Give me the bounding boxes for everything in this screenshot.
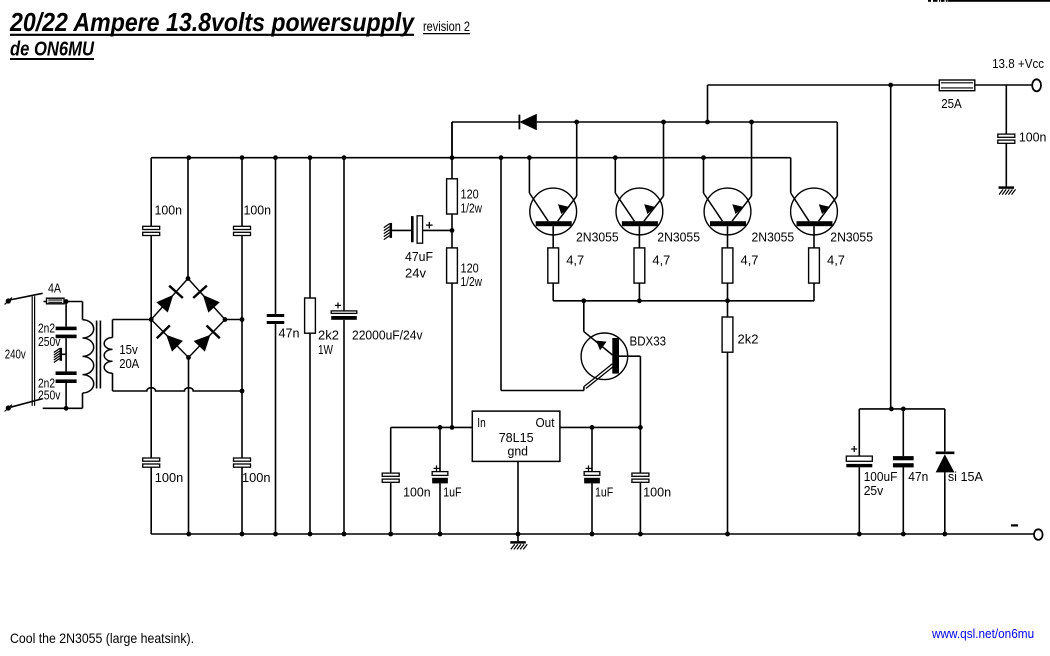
svg-text:2k2: 2k2	[318, 328, 339, 343]
svg-text:100n: 100n	[155, 202, 183, 217]
svg-text:Cool the 2N3055 (large heatsin: Cool the 2N3055 (large heatsink).	[10, 630, 194, 646]
svg-text:1W: 1W	[318, 342, 334, 357]
svg-text:47n: 47n	[279, 326, 300, 341]
svg-text:2N3055: 2N3055	[830, 230, 873, 245]
svg-text:Out: Out	[536, 415, 555, 430]
svg-text:240v: 240v	[5, 347, 26, 362]
svg-text:100n: 100n	[643, 485, 671, 500]
svg-text:1uF: 1uF	[443, 485, 461, 500]
svg-text:2k2: 2k2	[738, 332, 759, 347]
svg-text:1/2w: 1/2w	[461, 274, 483, 289]
svg-text:47uF: 47uF	[405, 249, 433, 264]
svg-text:120: 120	[461, 187, 479, 202]
svg-text:4,7: 4,7	[566, 253, 584, 268]
svg-text:4,7: 4,7	[827, 253, 845, 268]
svg-text:BDX33: BDX33	[630, 334, 667, 349]
svg-text:2N3055: 2N3055	[752, 230, 795, 245]
svg-text:1uF: 1uF	[595, 485, 613, 500]
svg-text:4,7: 4,7	[741, 253, 759, 268]
svg-text:100n: 100n	[242, 470, 271, 485]
svg-text:si 15A: si 15A	[948, 469, 983, 484]
svg-text:100n: 100n	[1019, 130, 1047, 145]
svg-text:2N3055: 2N3055	[657, 230, 700, 245]
svg-text:47n: 47n	[908, 469, 928, 484]
svg-text:gnd: gnd	[508, 444, 529, 459]
svg-text:100uF: 100uF	[864, 469, 898, 484]
svg-text:250v: 250v	[38, 388, 61, 403]
svg-text:25A: 25A	[941, 96, 962, 111]
svg-text:100n: 100n	[155, 470, 184, 485]
svg-text:1/2w: 1/2w	[461, 201, 483, 216]
svg-text:24v: 24v	[405, 266, 426, 281]
svg-text:100n: 100n	[244, 202, 272, 217]
svg-text:2N3055: 2N3055	[576, 230, 619, 245]
svg-text:de ON6MU: de ON6MU	[10, 39, 94, 61]
svg-text:25v: 25v	[864, 483, 884, 498]
svg-text:250v: 250v	[38, 334, 61, 349]
svg-text:20A: 20A	[119, 356, 139, 371]
svg-text:22000uF/24v: 22000uF/24v	[352, 328, 423, 343]
svg-text:4A: 4A	[48, 281, 61, 296]
svg-text:revision 2: revision 2	[423, 18, 470, 34]
svg-text:20/22 Ampere 13.8volts powersu: 20/22 Ampere 13.8volts powersupply	[9, 7, 415, 37]
svg-text:4,7: 4,7	[652, 253, 670, 268]
svg-text:15v: 15v	[119, 342, 138, 357]
svg-text:13.8 +Vcc: 13.8 +Vcc	[992, 56, 1044, 71]
svg-text:100n: 100n	[403, 485, 431, 500]
svg-text:In: In	[477, 415, 486, 430]
